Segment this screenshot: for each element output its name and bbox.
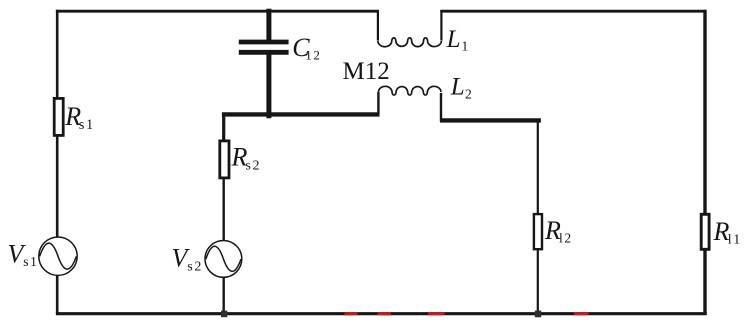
wire Rl2 branch vertical <box>537 120 539 315</box>
svg-text:s1: s1 <box>23 254 38 269</box>
svg-text:12: 12 <box>305 48 321 63</box>
wire left vertical (top-left corner down to bottom-left corner) <box>56 10 59 315</box>
red dash 3 <box>428 312 445 315</box>
inductor L1 <box>377 10 379 41</box>
svg-text:M12: M12 <box>343 58 390 85</box>
wire top-left horizontal <box>56 10 379 13</box>
wire right vertical <box>703 10 706 315</box>
svg-text:l1: l1 <box>728 232 742 247</box>
junction Rl2-bottom <box>535 311 541 318</box>
resistor Rs2 <box>220 141 229 178</box>
svg-text:L: L <box>446 26 461 53</box>
svg-text:1: 1 <box>462 39 469 54</box>
wire bottom horizontal <box>56 312 707 315</box>
source Vs2 <box>205 241 242 278</box>
resistor Rl2 <box>534 214 542 249</box>
wire top-right horizontal <box>440 10 706 13</box>
inductor L2 <box>377 92 379 115</box>
svg-text:s2: s2 <box>187 260 203 275</box>
red dash 4 <box>574 312 589 315</box>
svg-text:l2: l2 <box>559 230 573 245</box>
red dash 2 <box>378 312 392 315</box>
wire Rs2 vertical stub <box>222 113 225 141</box>
svg-text:L: L <box>450 74 465 101</box>
svg-text:2: 2 <box>465 86 472 101</box>
source Vs1 <box>39 237 77 275</box>
wire thick horizontal (L2 right leg to Rl2) <box>440 118 541 122</box>
resistor Rs1 <box>54 98 63 135</box>
junction Vs2-bottom <box>221 311 227 318</box>
capacitor C12 <box>266 9 271 42</box>
svg-text:s2: s2 <box>245 159 261 174</box>
wire Vs2 branch vertical <box>222 179 224 314</box>
red dash 1 <box>345 312 358 315</box>
svg-text:s1: s1 <box>79 117 95 133</box>
wire thick horizontal node (Rs2/C12 junction to L2 left leg) <box>222 112 380 116</box>
resistor Rl1 <box>701 214 709 249</box>
